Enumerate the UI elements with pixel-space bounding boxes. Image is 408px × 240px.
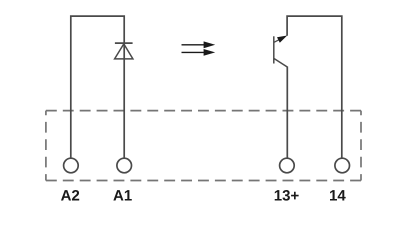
label A1 bbox=[113, 190, 131, 200]
phototransistor emitter lead bbox=[274, 58, 288, 67]
phototransistor base bar bbox=[273, 36, 275, 63]
label A2 bbox=[61, 190, 79, 200]
phototransistor collector lead bbox=[274, 38, 283, 43]
terminal A1 bbox=[117, 158, 132, 173]
optical coupling arrow (upper) bbox=[182, 41, 216, 48]
wire: phototransistor emitter to terminal 13+ bbox=[286, 67, 288, 159]
wire: input loop A2 to A1 bbox=[71, 16, 124, 158]
label 13+ bbox=[275, 190, 299, 201]
terminal 13+ bbox=[280, 158, 295, 173]
terminal strip box (dashed) bbox=[46, 111, 361, 181]
terminal 14 bbox=[335, 158, 350, 173]
label 14 bbox=[330, 190, 346, 200]
optical coupling arrow (lower) bbox=[182, 49, 216, 56]
phototransistor collector arrowhead bbox=[277, 36, 287, 43]
terminal A2 bbox=[64, 158, 79, 173]
wire: phototransistor collector to terminal 14 bbox=[287, 16, 342, 158]
LED diode triangle bbox=[115, 44, 133, 59]
LED diode cathode bar bbox=[115, 42, 133, 44]
